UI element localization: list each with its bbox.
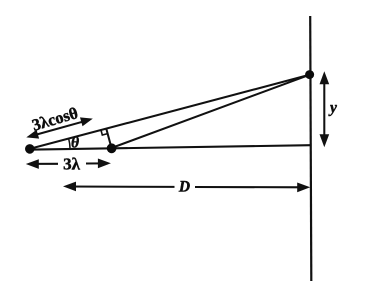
svg-text:D: D — [178, 179, 190, 196]
wire baseline S1 to screen — [27, 145, 311, 150]
node S2 — [107, 143, 117, 153]
right-angle mark at F — [101, 130, 108, 135]
node P — [305, 70, 314, 79]
svg-text:θ: θ — [71, 134, 79, 151]
screen (vertical line) — [310, 16, 311, 281]
svg-text:3λ: 3λ — [63, 155, 81, 174]
D dimension arrow — [63, 182, 310, 193]
wire perpendicular S2 to foot F — [106, 128, 111, 148]
wire S2 to P — [112, 75, 310, 148]
angle arc — [69, 139, 70, 148]
svg-text:y: y — [328, 100, 337, 117]
3λcosθ dimension arrow — [26, 117, 93, 138]
y dimension arrow — [320, 71, 330, 147]
3λ dimension arrow — [26, 159, 111, 169]
node S1 — [25, 144, 35, 154]
wire S1 to P — [30, 75, 310, 149]
